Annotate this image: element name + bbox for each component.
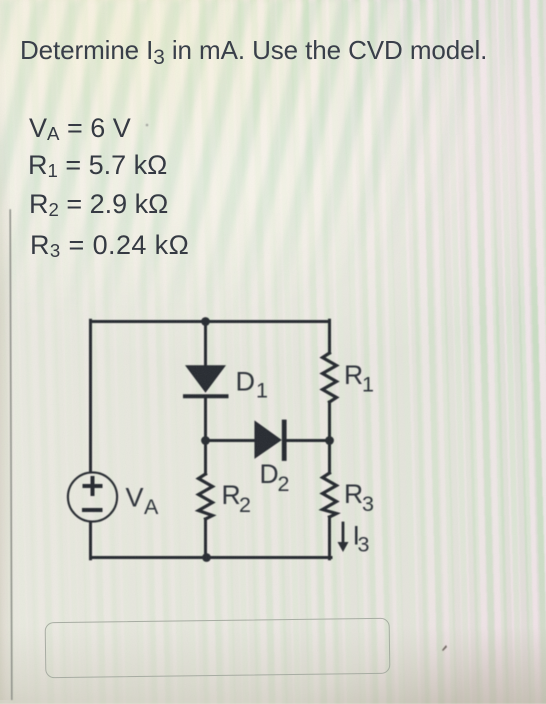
wire middle branch mid (D1 cathode to middle node) bbox=[204, 397, 207, 441]
wire left vertical upper (source to top-left corner) bbox=[89, 320, 92, 472]
junction node middle-left (D1/R2/D2) bbox=[201, 436, 210, 445]
wire middle branch lower (R2 bottom to bottom node) bbox=[204, 519, 207, 558]
svg-text:V: V bbox=[126, 483, 144, 513]
label R2 bbox=[222, 480, 251, 517]
junction node middle-right (R1/R3/D2) bbox=[325, 436, 334, 445]
svg-text:D: D bbox=[236, 367, 256, 397]
svg-text:R: R bbox=[344, 360, 363, 390]
svg-text:3: 3 bbox=[362, 492, 374, 516]
svg-text:3: 3 bbox=[358, 533, 370, 557]
label D2 bbox=[260, 459, 290, 496]
moire waves bbox=[0, 0, 546, 340]
page left edge shadow bbox=[0, 100, 10, 700]
resistor R2 zigzag bbox=[199, 474, 213, 519]
diode D2 (filled triangle pointing right + cathode bar) bbox=[255, 422, 284, 459]
wire right branch lower (R3 bottom to bottom-right corner) bbox=[328, 517, 331, 559]
speck artifact near answer box bbox=[442, 645, 447, 651]
diode D1 (cathode bar + filled triangle pointing down) bbox=[185, 366, 227, 396]
wire top horizontal bbox=[91, 320, 330, 323]
wire right branch mid (R1 bottom to right node) bbox=[328, 402, 331, 441]
wire right branch (right node to R3 top) bbox=[328, 441, 331, 474]
label R1 bbox=[344, 360, 374, 397]
label D1 bbox=[236, 367, 268, 403]
label VA bbox=[126, 483, 160, 520]
voltage source VA bbox=[68, 472, 117, 521]
svg-text:R: R bbox=[344, 479, 363, 509]
svg-text:2: 2 bbox=[239, 493, 251, 517]
label I3 bbox=[353, 521, 370, 557]
answer input box bbox=[45, 618, 391, 679]
title text bbox=[20, 35, 487, 66]
junction node top (D1 branch / top wire) bbox=[201, 317, 210, 326]
wire right branch upper (top-right corner to R1 top) bbox=[328, 320, 331, 353]
value label R1 = 5.7 kOhm bbox=[28, 150, 167, 181]
svg-text:1: 1 bbox=[256, 379, 268, 403]
wire left vertical lower (source to bottom-left corner) bbox=[89, 522, 92, 559]
wire middle horizontal (D2 cathode to right node) bbox=[284, 439, 330, 442]
value label R3 = 0.24 kOhm bbox=[30, 230, 189, 261]
value label R2 = 2.9 kOhm bbox=[29, 189, 168, 220]
resistor R1 zigzag bbox=[323, 353, 337, 402]
current arrow I3 bbox=[338, 523, 349, 552]
value label VA = 6 V bbox=[29, 113, 131, 144]
wire middle branch (middle node to R2 top) bbox=[204, 441, 207, 475]
wire bottom horizontal bbox=[91, 556, 332, 559]
label R3 bbox=[344, 479, 374, 516]
resistor R3 zigzag bbox=[323, 473, 337, 517]
svg-text:R: R bbox=[222, 480, 241, 510]
svg-text:1: 1 bbox=[362, 373, 374, 397]
svg-text:2: 2 bbox=[278, 472, 290, 496]
wire middle branch upper (top node to D1 anode) bbox=[204, 322, 207, 367]
svg-text:A: A bbox=[144, 495, 159, 519]
speck artifact after 6 V bbox=[146, 124, 149, 127]
page edge vertical line bbox=[10, 210, 12, 700]
wire middle horizontal (middle node to D2 anode) bbox=[206, 439, 257, 442]
junction node bottom (R2 branch / bottom wire) bbox=[202, 553, 211, 562]
svg-text:D: D bbox=[260, 459, 279, 489]
